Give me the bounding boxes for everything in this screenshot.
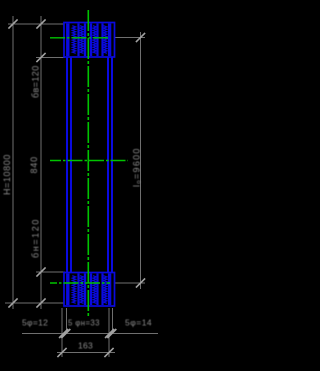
svg-text:840: 840 bbox=[29, 156, 39, 173]
svg-text:163: 163 bbox=[78, 341, 93, 351]
svg-text:бв=120: бв=120 bbox=[31, 65, 41, 98]
svg-text:H=10800: H=10800 bbox=[2, 154, 12, 195]
svg-text:5φ=12: 5φ=12 bbox=[22, 318, 48, 328]
svg-text:5 φн=33: 5 φн=33 bbox=[68, 319, 100, 328]
svg-text:бн=120: бн=120 bbox=[31, 218, 41, 258]
svg-text:5φ=14: 5φ=14 bbox=[125, 318, 152, 328]
